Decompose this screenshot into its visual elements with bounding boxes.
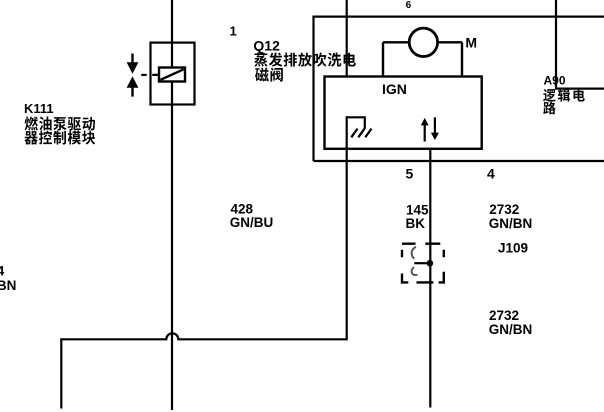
- svg-text:1: 1: [230, 24, 237, 39]
- flow arrows stems: [425, 117, 435, 141]
- wire from top through K111 relay, down to bottom: [171, 0, 173, 410]
- K111 name line1 燃油泵驱动: [24, 117, 94, 131]
- A90 name line2 路: [543, 102, 555, 115]
- svg-text:4: 4: [0, 264, 5, 279]
- wire pin4 down through J109: [429, 149, 431, 408]
- K111 name line2 器控制模块: [24, 131, 95, 145]
- actuation arrows stems: [131, 54, 133, 97]
- wire pin6 from top into valve: [346, 0, 348, 78]
- J109 dashed connector box: [402, 244, 444, 283]
- svg-text:GN/BU: GN/BU: [230, 215, 273, 230]
- A90 name line1 逻辑电: [543, 89, 585, 102]
- flow arrow up head: [421, 118, 429, 126]
- actuation arrows heads: [127, 62, 439, 266]
- svg-text:BK: BK: [406, 216, 426, 231]
- A90 wire from top to right edge: [556, 0, 604, 89]
- Q12 name line2 磁阀: [255, 68, 283, 82]
- svg-text:6: 6: [406, 0, 412, 11]
- svg-text:GN/BN: GN/BN: [489, 216, 533, 231]
- relay coil element (rect with diagonal): [159, 68, 185, 82]
- svg-text:J109: J109: [498, 241, 528, 256]
- Q12 outer component box (open right edge): [314, 17, 604, 161]
- ground wire from inside valve down to pin5, across to bottom-left with hop: [61, 116, 346, 408]
- motor circle: [409, 28, 437, 56]
- svg-text:A90: A90: [544, 73, 566, 87]
- J109 branch wire: [414, 262, 430, 264]
- svg-text:GN/BN: GN/BN: [489, 322, 533, 337]
- K111 relay outline box: [151, 43, 195, 105]
- motor M leads and mounting brackets: [383, 42, 462, 76]
- svg-text:5: 5: [406, 166, 414, 182]
- svg-text:Q12: Q12: [253, 38, 280, 54]
- valve inner box IGN: [325, 77, 482, 149]
- coil diagonal stroke: [161, 69, 184, 80]
- flow arrow down head: [431, 133, 439, 141]
- J109 junction dot: [427, 260, 434, 267]
- dashed actuation link: [141, 74, 159, 76]
- svg-text:IGN: IGN: [382, 81, 407, 97]
- ground branch inside valve: [347, 117, 365, 129]
- J109 splice squiggle: [412, 247, 418, 275]
- svg-text:M: M: [465, 35, 477, 51]
- svg-text:K111: K111: [24, 101, 54, 116]
- chassis ground hatches: [351, 129, 371, 138]
- Q12 name line1 蒸发排放吹洗电: [254, 52, 356, 66]
- svg-text:BN: BN: [0, 278, 16, 293]
- svg-text:4: 4: [487, 165, 495, 181]
